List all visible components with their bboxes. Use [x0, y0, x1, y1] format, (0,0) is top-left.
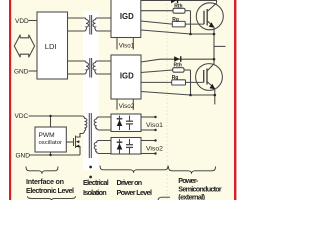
wire Rg2 to gate — [186, 81, 204, 83]
IGBT Q1 emitter arrow — [209, 22, 215, 27]
junction node VDC tap — [49, 115, 51, 117]
PWM oscillator box — [35, 127, 66, 152]
wire sec2 top to box — [97, 141, 111, 143]
svg-text:VDC: VDC — [15, 113, 29, 120]
wire rail upper emitter — [141, 30, 214, 34]
wire VDC rail — [29, 116, 85, 119]
Viso2 bracket left pin — [116, 99, 118, 110]
wire T2 to IGD2 bottom — [96, 72, 112, 74]
IGBT Q1 gate bar — [203, 11, 205, 24]
capacitor C1 in box1 — [129, 116, 131, 122]
svg-text:LDI: LDI — [45, 42, 57, 51]
IGBT Q1 emitter — [207, 21, 214, 27]
IGBT Q2 collector — [207, 46, 214, 71]
svg-text:Rth: Rth — [174, 63, 182, 69]
wire Viso1 out top — [141, 116, 155, 118]
diode D2 in box2 — [119, 139, 121, 154]
primary to MOSFET drain — [80, 131, 85, 138]
Viso1 bracket right pin — [132, 38, 134, 50]
junction node collector sense lower — [213, 58, 216, 61]
terminal node Viso2 + — [154, 139, 156, 141]
wire phase tick — [214, 45, 226, 47]
IGBT Q2 body bar — [206, 69, 208, 85]
isolation white strip — [83, 11, 99, 170]
transformer T2 primary winding — [86, 63, 89, 73]
wire Viso2 out bottom — [141, 153, 155, 155]
IGBT Q2 emitter — [207, 82, 215, 89]
svg-text:Electrical: Electrical — [83, 178, 109, 187]
wire Viso1 out bottom — [141, 129, 155, 131]
terminal node Viso2 - — [154, 152, 156, 154]
junction node emitter rail lower — [214, 94, 217, 97]
svg-text:Viso2: Viso2 — [119, 103, 135, 110]
MOSFET M1 drain — [76, 134, 81, 138]
svg-text:Driver on: Driver on — [117, 178, 143, 187]
svg-text:Isolation: Isolation — [83, 188, 107, 197]
terminal node Viso1 - — [154, 129, 156, 131]
diode VCE upper (clipped) — [171, 0, 181, 62]
svg-text:Viso1: Viso1 — [146, 122, 163, 129]
svg-text:VDD: VDD — [15, 18, 29, 25]
Viso2 bracket right pin — [132, 99, 134, 110]
wire Viso2 out top — [141, 140, 155, 142]
wire GND to LDI — [29, 70, 37, 72]
wire sec1 top to box — [97, 117, 111, 119]
MOSFET M1 source — [76, 147, 81, 156]
MOSFET M1 gate bar — [73, 138, 75, 146]
background cream field — [0, 0, 240, 200]
power transformer secondary 2 — [94, 143, 96, 153]
svg-text:oscillator: oscillator — [39, 140, 63, 146]
red border line right — [234, 0, 236, 200]
svg-text:Rg: Rg — [172, 17, 179, 23]
transformer T1 core — [89, 15, 91, 35]
IGBT Q2 circle — [196, 64, 223, 91]
wire IGD2 VCE sense — [141, 59, 214, 62]
svg-text:(external): (external) — [178, 193, 205, 200]
wire rail lower emitter — [141, 92, 215, 96]
IGBT Q1 collector — [207, 0, 216, 12]
wire T1 to IGD1 top — [96, 18, 112, 20]
wire IGD2 to Rth — [141, 70, 173, 73]
brace bottom-left partial — [28, 196, 76, 200]
wire IGD1 to Rg — [141, 21, 173, 24]
resistor Rg (upper) — [172, 21, 185, 27]
svg-text:Rg: Rg — [172, 75, 179, 81]
wire IGD2 to Rg — [141, 81, 172, 83]
IGD1 box U2 — [111, 0, 141, 38]
IGBT Q1 circle — [196, 3, 223, 30]
bidirectional arrow symbol — [14, 35, 34, 57]
wire sec1 bottom to box — [97, 128, 111, 130]
diode VCE lower — [174, 56, 179, 62]
text labels — [14, 18, 30, 160]
power transformer secondary 1 — [94, 119, 96, 129]
wire Rth2 to drop — [184, 69, 191, 71]
wire Rth to drop — [185, 10, 191, 12]
terminal node Viso1 + — [154, 116, 156, 118]
red border line left — [9, 0, 11, 200]
rectifier box 1 — [111, 114, 141, 132]
Viso1 bracket left pin — [116, 38, 118, 50]
wire VDC tap to PWM — [50, 116, 52, 127]
power transformer core — [88, 113, 90, 158]
wire LDI to T1 top — [68, 18, 87, 20]
wire IGD1 VCE sense — [141, 0, 217, 2]
transformer T1 secondary winding — [93, 20, 96, 30]
wire VDD to LDI — [29, 20, 37, 22]
wire LDI to T2 top — [68, 61, 87, 63]
svg-text:PWM: PWM — [39, 132, 55, 139]
brace bottom-right partial — [158, 197, 170, 200]
isolation barrier continuation dot 2 — [89, 176, 92, 179]
wire PWM gate — [66, 141, 73, 143]
svg-text:GND: GND — [14, 69, 29, 76]
wire lower emitter vertical — [214, 89, 216, 105]
wire PWM to GND — [50, 152, 52, 155]
wire mid vertical — [213, 27, 215, 64]
svg-text:Electronic Level: Electronic Level — [26, 186, 74, 195]
wire GND rail — [30, 154, 81, 156]
wire T2 to IGD2 top — [96, 61, 112, 63]
IGD2 box U3 — [111, 55, 141, 99]
rectifier box 2 — [111, 138, 141, 155]
wire drop x191 to lower rail — [190, 70, 192, 95]
diode D1 in box1 — [119, 116, 121, 131]
power transformer primary winding — [85, 118, 87, 130]
junction node emitter rail upper — [213, 33, 216, 36]
svg-text:IGD: IGD — [120, 71, 134, 80]
svg-text:Viso2: Viso2 — [146, 145, 163, 152]
wire sec2 bottom to box — [97, 151, 111, 153]
IGBT Q2 emitter arrow — [210, 84, 216, 89]
brace power-semiconductor — [169, 167, 216, 174]
transformer T2 core — [89, 58, 91, 78]
MOSFET M1 arrows — [76, 140, 79, 143]
wire Rg to gate — [185, 23, 204, 25]
braces — [26, 166, 216, 201]
transformer T1 primary winding — [86, 20, 89, 30]
svg-text:Power Level: Power Level — [117, 188, 153, 197]
brace interface — [26, 167, 58, 174]
dotted separator line — [166, 0, 168, 200]
svg-text:Interface on: Interface on — [26, 177, 64, 186]
resistor Rth (lower) — [173, 68, 184, 73]
svg-text:IGD: IGD — [120, 12, 134, 21]
wire IGD1 to Rth — [141, 10, 173, 12]
svg-text:Viso1: Viso1 — [119, 43, 135, 50]
wire LDI to T1 bottom — [68, 29, 87, 31]
IGBT Q1 body bar — [206, 9, 208, 26]
junction node Rge-emitter rail lower — [189, 94, 192, 97]
svg-text:Rth: Rth — [174, 4, 182, 10]
LDI box U1 — [37, 12, 68, 79]
wire LDI to T2 bottom — [68, 72, 87, 74]
resistor Rg (lower) — [172, 80, 186, 85]
wire drop x191 to rail — [190, 11, 192, 34]
svg-text:GND: GND — [16, 152, 31, 159]
IGBT Q2 gate bar — [203, 70, 205, 82]
brace driver — [100, 166, 168, 173]
wire T1 to IGD1 bottom — [96, 29, 112, 31]
resistor Rth (upper) — [173, 8, 185, 13]
isolation barrier continuation dot 1 — [89, 166, 92, 169]
junction node GND tap — [49, 154, 51, 156]
MOSFET M1 channel bar — [75, 136, 77, 149]
transformer T2 secondary winding — [93, 63, 96, 73]
capacitor C2 in box2 — [129, 139, 131, 145]
junction node Rge-emitter rail upper — [189, 33, 192, 36]
